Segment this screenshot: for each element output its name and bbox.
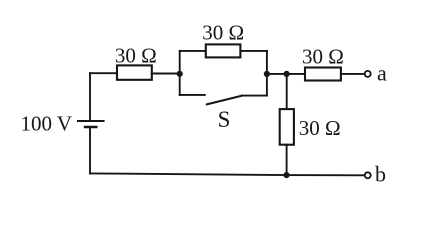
wire: node C to R3 — [287, 73, 305, 75]
svg-text:S: S — [218, 107, 231, 132]
svg-text:100 V: 100 V — [21, 112, 73, 136]
svg-text:a: a — [377, 60, 387, 85]
wire: switch branch right lead — [242, 95, 267, 97]
resistor R4 30 ohm (vertical) — [280, 109, 341, 145]
wire: left riser of parallel block — [179, 51, 181, 95]
node C (junction dot, top of R4) — [284, 71, 290, 77]
svg-text:30 Ω: 30 Ω — [299, 116, 341, 140]
wire: right riser of parallel block — [266, 51, 268, 96]
svg-text:30 Ω: 30 Ω — [202, 20, 244, 44]
node B (junction dot, right of parallel block) — [264, 71, 270, 77]
wire: R3 to terminal a — [341, 73, 365, 75]
wire: R4 down to node D — [286, 145, 288, 175]
switch S (open blade) — [207, 96, 243, 132]
battery B1 (cell) — [21, 112, 105, 136]
terminal b (open circle) — [365, 162, 386, 187]
wire: bottom rail left segment — [90, 173, 287, 175]
wire: top branch left lead — [180, 50, 206, 52]
resistor R3 30 ohm (series, to terminal a) — [302, 45, 344, 81]
terminal a (open circle) — [365, 60, 387, 85]
node A (junction dot, left of parallel block) — [177, 71, 183, 77]
wire: left rail bottom (battery down to bottom rail corner) — [89, 128, 91, 173]
wire: node C down to R4 — [286, 74, 288, 109]
svg-text:30 Ω: 30 Ω — [302, 45, 344, 69]
wire: node B to node C — [267, 73, 287, 75]
wire: top-left segment from corner to R1 — [90, 72, 117, 74]
wire: left rail top (corner down to battery) — [89, 73, 91, 120]
wire: R1 to node A — [152, 73, 180, 75]
resistor R1 30 ohm (series, top left) — [115, 44, 157, 80]
node D (junction dot on bottom rail) — [283, 172, 289, 178]
wire: bottom rail right segment to terminal b — [287, 174, 365, 176]
svg-text:30 Ω: 30 Ω — [115, 44, 157, 68]
resistor R2 30 ohm (parallel top branch) — [202, 20, 244, 57]
svg-text:b: b — [375, 162, 386, 187]
wire: switch branch left lead — [180, 94, 205, 96]
wire: top branch right lead — [240, 50, 267, 52]
